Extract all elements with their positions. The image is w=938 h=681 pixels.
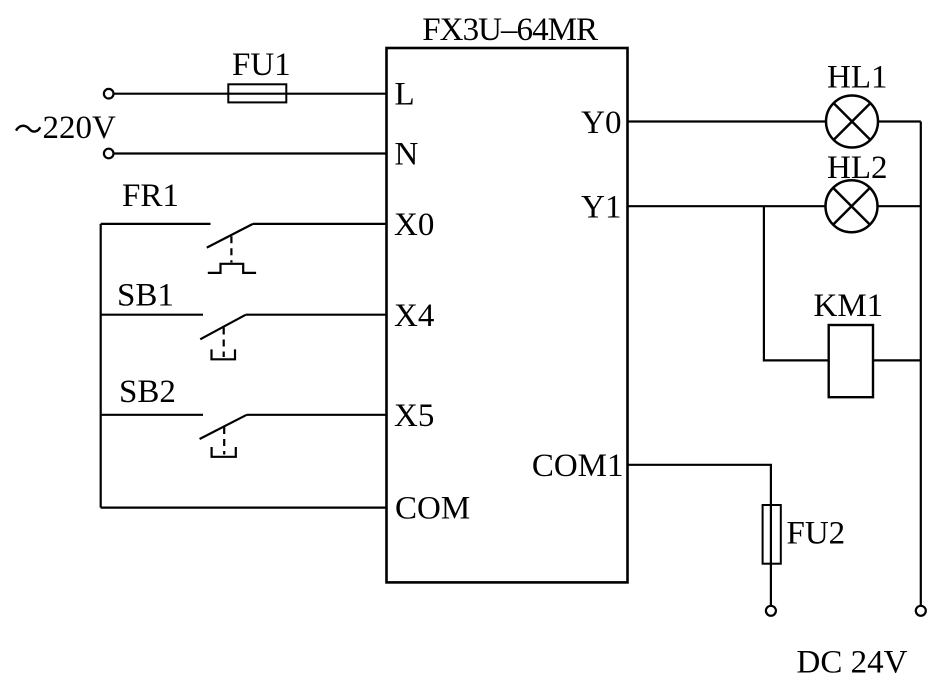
svg-text:X4: X4 bbox=[394, 298, 434, 334]
svg-text:COM: COM bbox=[395, 490, 470, 526]
svg-text:220V: 220V bbox=[43, 110, 117, 146]
svg-text:SB2: SB2 bbox=[119, 374, 176, 410]
PLC U1 FX3U-64MR block bbox=[387, 48, 628, 582]
SB1 dashed actuator link bbox=[223, 328, 225, 358]
wire Y1 (PLC to lamp HL2) bbox=[627, 205, 826, 207]
label SB2 bbox=[119, 374, 176, 410]
right bus wire bbox=[920, 122, 922, 606]
svg-text:FU2: FU2 bbox=[787, 516, 846, 552]
terminal DC+ (right bus) bbox=[916, 606, 926, 616]
SB1 pushbutton cap bbox=[212, 349, 236, 359]
pin label Y1 bbox=[581, 190, 621, 226]
wire KM1 branch (down from Y1 wire) bbox=[764, 206, 829, 360]
pin label X5 bbox=[394, 398, 434, 434]
terminal N (AC source) bbox=[104, 149, 114, 159]
FR1 thermal element symbol bbox=[208, 264, 256, 273]
wire X5 right segment bbox=[247, 414, 387, 416]
wire HL1 to right bus bbox=[878, 120, 921, 122]
label SB1 bbox=[117, 278, 174, 314]
wire X4 left segment bbox=[101, 314, 203, 316]
terminal L (AC source) bbox=[104, 89, 114, 99]
label FX3U-64MR bbox=[422, 12, 598, 48]
wire KM1 to right bus bbox=[873, 359, 921, 361]
svg-text:X5: X5 bbox=[394, 398, 434, 434]
left bus wire (common of inputs) bbox=[100, 224, 102, 508]
label HL2 bbox=[827, 150, 888, 186]
contact SB2 blade (pushbutton) bbox=[200, 415, 247, 439]
svg-text:HL2: HL2 bbox=[827, 150, 888, 186]
lamp HL1 bbox=[826, 96, 878, 148]
label KM1 bbox=[814, 288, 884, 324]
fuse FU1 bbox=[228, 84, 286, 102]
svg-text:Y1: Y1 bbox=[581, 190, 621, 226]
wire Y0 (PLC to lamp HL1) bbox=[627, 120, 827, 122]
wire X5 left segment bbox=[101, 414, 203, 416]
wire X0 left segment bbox=[101, 223, 211, 225]
pin label N bbox=[395, 137, 419, 173]
svg-text:FU1: FU1 bbox=[232, 47, 291, 83]
pin label COM1 bbox=[532, 448, 624, 484]
fuse FU2 bbox=[763, 505, 781, 564]
terminal DC- (below FU2) bbox=[766, 606, 776, 616]
label HL1 bbox=[827, 60, 888, 96]
svg-text:HL1: HL1 bbox=[827, 60, 888, 96]
pin label Y0 bbox=[581, 105, 621, 141]
contact FR1 blade (NC thermal relay contact) bbox=[207, 224, 253, 248]
label ~220V (AC source) bbox=[16, 110, 116, 146]
svg-text:SB1: SB1 bbox=[117, 278, 174, 314]
svg-text:COM1: COM1 bbox=[532, 448, 624, 484]
svg-text:X0: X0 bbox=[394, 207, 434, 243]
coil KM1 bbox=[829, 325, 873, 397]
svg-text:KM1: KM1 bbox=[814, 288, 884, 324]
contact SB1 blade (pushbutton) bbox=[200, 315, 246, 340]
wire N (source to PLC pin N) bbox=[114, 152, 388, 154]
label FU2 bbox=[787, 516, 846, 552]
svg-text:FX3U–64MR: FX3U–64MR bbox=[422, 12, 598, 48]
label FU1 bbox=[232, 47, 291, 83]
wire L (source to fuse to PLC pin L) bbox=[114, 93, 388, 95]
SB2 dashed actuator link bbox=[223, 427, 225, 455]
FR1 dashed actuator link bbox=[230, 236, 232, 262]
label FR1 bbox=[122, 178, 179, 214]
SB2 pushbutton cap bbox=[212, 447, 236, 457]
pin label X4 bbox=[394, 298, 434, 334]
label DC 24V bbox=[797, 645, 908, 681]
wire COM1 (PLC to FU2) bbox=[627, 465, 771, 606]
svg-text:Y0: Y0 bbox=[581, 105, 621, 141]
pin label X0 bbox=[394, 207, 434, 243]
wire X0 right segment bbox=[253, 223, 387, 225]
pin label COM bbox=[395, 490, 470, 526]
wire HL2 to right bus bbox=[877, 205, 921, 207]
svg-text:FR1: FR1 bbox=[122, 178, 179, 214]
wire COM (bus to PLC pin COM) bbox=[101, 507, 387, 509]
lamp HL2 bbox=[826, 180, 878, 232]
svg-text:L: L bbox=[395, 77, 415, 113]
wire X4 right segment bbox=[246, 314, 387, 316]
svg-text:N: N bbox=[395, 137, 419, 173]
pin label L bbox=[395, 77, 415, 113]
svg-text:DC 24V: DC 24V bbox=[797, 645, 908, 681]
